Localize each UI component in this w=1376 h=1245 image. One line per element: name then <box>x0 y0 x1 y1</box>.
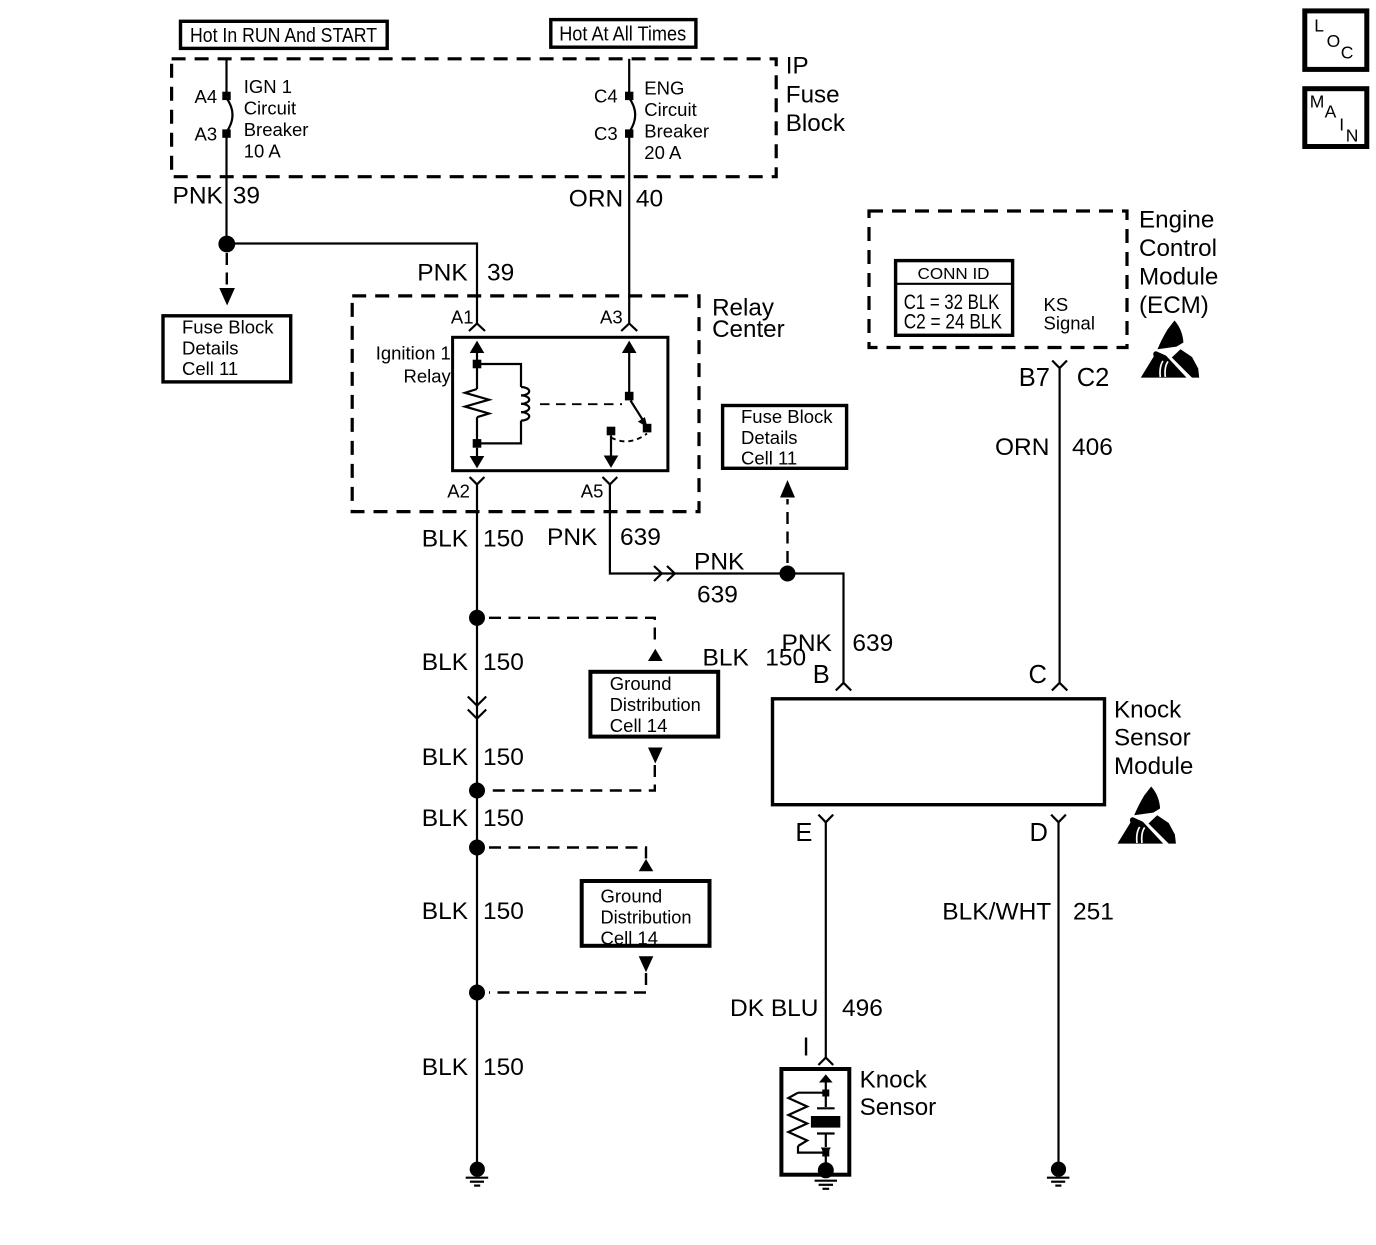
CONN ID table <box>896 261 1013 336</box>
svg-text:Cell 11: Cell 11 <box>182 358 238 379</box>
svg-text:A3: A3 <box>195 124 218 145</box>
wire BLK 150 to ground <box>476 993 478 1164</box>
svg-text:20 A: 20 A <box>644 142 682 163</box>
wire label BLK 150 (6) <box>422 1054 524 1081</box>
svg-text:L: L <box>1314 16 1324 36</box>
arrowhead down (ground distribution 2 bottom) <box>639 956 654 972</box>
svg-text:Ignition 1: Ignition 1 <box>376 343 451 364</box>
svg-text:Sensor: Sensor <box>860 1094 937 1121</box>
wire label ORN 406 <box>995 434 1113 461</box>
label IP Fuse Block <box>786 53 846 138</box>
svg-text:39: 39 <box>233 183 260 210</box>
svg-text:E: E <box>795 819 812 847</box>
svg-text:PNK: PNK <box>173 183 224 210</box>
dashed wire to Ground Distribution 1 <box>489 618 655 646</box>
reference box Fuse Block Details Cell 11 (left) <box>163 316 291 382</box>
dashed wire to Ground Distribution 2 <box>489 848 646 867</box>
svg-text:C: C <box>1341 43 1354 63</box>
svg-text:639: 639 <box>620 524 661 551</box>
relay coil branch left: arrow up, node, resistor <box>470 341 485 389</box>
svg-text:Circuit: Circuit <box>644 99 696 120</box>
wire label PNK 39 (upper) <box>173 183 260 210</box>
svg-text:Cell 11: Cell 11 <box>741 448 797 469</box>
circuit breaker IGN 1 (A4/A3, 10 A) <box>222 92 232 138</box>
reference box Ground Distribution Cell 14 (upper) <box>590 672 718 737</box>
svg-text:Cell 14: Cell 14 <box>610 715 668 736</box>
svg-text:A2: A2 <box>447 481 470 502</box>
svg-text:150: 150 <box>483 744 524 771</box>
connector terminal B (KSM) <box>813 661 852 691</box>
dashed arc between switch contacts <box>611 434 647 442</box>
svg-text:BLK: BLK <box>422 1054 469 1081</box>
label box Hot In RUN And START <box>181 21 388 48</box>
value label ENG Circuit Breaker 20 A <box>644 78 709 164</box>
reference box Ground Distribution Cell 14 (lower) <box>582 881 710 949</box>
label KS Signal <box>1044 294 1095 334</box>
ground (knock sensor) <box>815 1162 837 1189</box>
svg-text:150: 150 <box>765 644 806 671</box>
svg-text:BLK: BLK <box>422 898 469 925</box>
svg-text:(ECM): (ECM) <box>1139 292 1209 319</box>
svg-text:Knock: Knock <box>1114 696 1182 723</box>
svg-text:639: 639 <box>852 630 893 657</box>
svg-text:C: C <box>1029 661 1047 689</box>
svg-text:B7: B7 <box>1019 364 1050 392</box>
svg-text:A5: A5 <box>581 481 604 502</box>
svg-text:IP: IP <box>786 53 809 80</box>
svg-text:406: 406 <box>1072 434 1113 461</box>
dashed wire back to main BLK wire <box>489 765 655 791</box>
wire PNK 39 horizontal to relay A1 <box>227 244 477 325</box>
svg-text:Circuit: Circuit <box>244 98 296 119</box>
relay switch branch right: arrow up and node <box>622 341 637 401</box>
wire label BLK 150 (floating mid) <box>703 644 807 671</box>
svg-text:Knock: Knock <box>860 1067 928 1094</box>
svg-text:Block: Block <box>786 110 846 137</box>
arrowhead up (ground distribution 2 top) <box>639 859 654 871</box>
svg-text:PNK: PNK <box>417 260 468 287</box>
svg-text:A3: A3 <box>600 306 623 327</box>
dashed wire up to Fuse Block Details cell 11 (right) <box>786 499 788 563</box>
junction node BLK 150 splice 3 <box>469 840 485 856</box>
wire DK BLU 496 from E to knock sensor <box>825 822 827 1057</box>
arrowhead down (ground distribution 1 bottom) <box>648 748 663 764</box>
svg-text:ORN: ORN <box>995 434 1049 461</box>
svg-text:ORN: ORN <box>569 186 623 213</box>
svg-text:A1: A1 <box>451 306 474 327</box>
relay switch contact node left (to A5) <box>607 427 616 436</box>
svg-text:BLK: BLK <box>422 805 469 832</box>
svg-text:150: 150 <box>483 649 524 676</box>
knock sensor internal node top <box>822 1090 829 1097</box>
svg-text:DK BLU: DK BLU <box>730 995 819 1022</box>
MAIN reference box <box>1305 89 1367 147</box>
wire BLK 150 main run junction1 to junction2 <box>476 618 478 791</box>
piezo element (capacitor with crystal) <box>811 1097 840 1148</box>
wire label DK BLU 496 <box>730 995 883 1022</box>
svg-text:BLK: BLK <box>422 744 469 771</box>
arrowhead up to fuse block details right <box>780 480 795 498</box>
svg-text:Fuse Block: Fuse Block <box>182 317 274 338</box>
dashed actuation link coil to switch <box>540 403 622 405</box>
svg-text:O: O <box>1327 31 1341 51</box>
svg-text:PNK: PNK <box>547 524 598 551</box>
wire BLK 150 junction2 to junction3 <box>476 791 478 848</box>
svg-text:496: 496 <box>842 995 883 1022</box>
knock sensor internal arrow up <box>819 1074 833 1090</box>
svg-text:Module: Module <box>1139 264 1218 291</box>
value label IGN 1 Circuit Breaker 10 A <box>244 76 309 162</box>
label Engine Control Module (ECM) <box>1139 207 1218 320</box>
label box Hot At All Times <box>551 20 696 48</box>
svg-text:150: 150 <box>483 1054 524 1081</box>
label Knock Sensor <box>860 1067 937 1121</box>
knock sensor module box <box>773 699 1105 805</box>
wire and arrow down to A2 <box>470 448 485 469</box>
ESD symbol (KSM) <box>1118 787 1176 844</box>
svg-text:Hot At All Times: Hot At All Times <box>559 22 686 45</box>
wire label BLK/WHT 251 <box>942 899 1114 926</box>
svg-text:C2: C2 <box>1077 364 1110 392</box>
ground G100 (left) <box>466 1162 489 1186</box>
svg-text:CONN ID: CONN ID <box>918 266 990 283</box>
arrowhead down to fuse block details <box>219 288 235 306</box>
svg-text:Fuse: Fuse <box>786 81 840 108</box>
svg-text:39: 39 <box>487 260 514 287</box>
svg-text:Breaker: Breaker <box>244 119 309 140</box>
svg-text:Details: Details <box>741 427 798 448</box>
circuit breaker ENG (C4/C3, 20 A) <box>625 92 635 138</box>
ECM dashed box <box>869 211 1127 348</box>
svg-text:40: 40 <box>636 186 663 213</box>
wire label PNK 639 (vertical to B) <box>782 630 894 657</box>
wire label ORN 40 <box>569 186 663 213</box>
Relay Center dashed box <box>352 296 699 512</box>
svg-text:IGN 1: IGN 1 <box>244 76 292 97</box>
svg-text:10 A: 10 A <box>244 141 282 162</box>
svg-text:N: N <box>1346 125 1359 145</box>
wire label BLK 150 (4) <box>422 805 524 832</box>
relay switch contact node right <box>643 424 652 433</box>
ground G (right, BLK/WHT 251) <box>1047 1162 1070 1186</box>
wire BLK 150 from A2 down to first junction <box>476 484 478 618</box>
svg-text:C2 = 24 BLK: C2 = 24 BLK <box>904 310 1002 333</box>
connector terminal B7 / C2 <box>1019 361 1110 393</box>
svg-text:Engine: Engine <box>1139 207 1214 234</box>
svg-text:BLK/WHT: BLK/WHT <box>942 899 1051 926</box>
svg-text:BLK: BLK <box>703 644 750 671</box>
wire BLK/WHT 251 from D to ground <box>1057 822 1059 1163</box>
svg-text:639: 639 <box>697 582 738 609</box>
connector terminal D (KSM bottom) <box>1030 815 1066 847</box>
connector terminal A5 <box>581 477 618 502</box>
connector terminal A2 <box>447 477 484 502</box>
svg-text:BLK: BLK <box>422 526 469 553</box>
wire ORN 40 from fuse block top through breaker down to relay A3 <box>628 59 630 324</box>
svg-text:PNK: PNK <box>694 549 745 576</box>
svg-text:150: 150 <box>483 526 524 553</box>
LOC reference box <box>1305 11 1367 70</box>
label Relay Center <box>712 295 785 343</box>
svg-text:Signal: Signal <box>1044 313 1095 334</box>
wire and arrow down to A5 <box>604 435 619 468</box>
svg-text:Relay: Relay <box>403 366 451 387</box>
svg-text:I: I <box>1339 115 1344 135</box>
wire label BLK 150 (below A2) <box>422 526 524 553</box>
connector terminal E (KSM bottom) <box>795 815 833 847</box>
ESD symbol (ECM) <box>1141 321 1199 378</box>
svg-text:A4: A4 <box>195 86 218 107</box>
wire PNK 39 from fuse block top through breaker to junction <box>225 59 227 244</box>
svg-text:Module: Module <box>1114 753 1193 780</box>
svg-text:Hot In RUN And START: Hot In RUN And START <box>190 24 377 47</box>
junction node BLK 150 splice 2 <box>469 783 485 799</box>
svg-text:ENG: ENG <box>644 78 684 99</box>
wire PNK 639 from A5 down then right to B <box>610 484 844 683</box>
svg-text:C3: C3 <box>594 123 618 144</box>
svg-text:C4: C4 <box>594 85 618 106</box>
dashed wire back to main BLK wire lower <box>489 973 646 993</box>
relay switch movable contact arm with arrowhead <box>631 401 648 428</box>
splice chevrons on BLK wire <box>468 697 486 719</box>
connector terminal I <box>818 1058 833 1065</box>
junction node BLK 150 splice 1 <box>469 610 485 626</box>
wire to lower node <box>476 417 478 439</box>
inductor L relay coil <box>481 364 529 443</box>
label Ignition 1 Relay <box>376 343 452 387</box>
svg-text:Center: Center <box>712 316 785 343</box>
wire label PNK 639 (horizontal run) <box>694 549 745 609</box>
junction node PNK 39 splice <box>218 236 235 253</box>
svg-text:Distribution: Distribution <box>601 907 692 928</box>
svg-text:D: D <box>1030 819 1048 847</box>
svg-text:Cell 14: Cell 14 <box>601 928 659 949</box>
svg-text:Sensor: Sensor <box>1114 725 1191 752</box>
svg-text:Ground: Ground <box>601 886 663 907</box>
wire ORN 406 from ECM to knock sensor module C <box>1058 368 1060 683</box>
dashed wire to Fuse Block Details cell 11 (left) <box>226 253 228 289</box>
knock sensor box <box>781 1069 849 1175</box>
svg-text:B: B <box>813 661 830 689</box>
reference box Fuse Block Details Cell 11 (right) <box>723 406 847 469</box>
connector terminal A3 (relay) <box>600 306 637 331</box>
svg-text:251: 251 <box>1073 899 1114 926</box>
svg-text:Distribution: Distribution <box>610 694 701 715</box>
svg-text:Ground: Ground <box>610 673 672 694</box>
connector terminal C (KSM) <box>1029 661 1068 691</box>
knock sensor internal lower arrow and node <box>821 1148 831 1165</box>
connector terminal A1 <box>451 306 485 331</box>
junction node BLK 150 splice 4 <box>469 985 485 1001</box>
svg-text:Breaker: Breaker <box>644 121 709 142</box>
wire label BLK 150 (2) <box>422 649 524 676</box>
junction node PNK 639 splice <box>780 566 796 582</box>
wire label PNK 39 (at relay A1) <box>417 260 514 287</box>
svg-text:150: 150 <box>483 898 524 925</box>
node lower left of relay <box>473 439 482 448</box>
svg-text:A: A <box>1325 102 1337 122</box>
arrowhead up (ground distribution 1 top) <box>648 649 663 661</box>
knock sensor internal resistor <box>788 1093 822 1153</box>
svg-text:Control: Control <box>1139 235 1217 262</box>
svg-text:M: M <box>1310 91 1325 111</box>
wire label BLK 150 (5) <box>422 898 524 925</box>
resistor (relay coil suppression) <box>465 389 489 417</box>
wire label PNK 639 (at A5) <box>547 524 661 551</box>
wire BLK 150 junction3 to junction4 <box>476 848 478 993</box>
svg-text:Fuse Block: Fuse Block <box>741 406 833 427</box>
svg-text:150: 150 <box>483 805 524 832</box>
label Knock Sensor Module <box>1114 696 1193 780</box>
IP Fuse Block dashed box <box>172 59 777 177</box>
wire label BLK 150 (3) <box>422 744 524 771</box>
svg-text:Details: Details <box>182 337 239 358</box>
svg-text:BLK: BLK <box>422 649 469 676</box>
svg-text:I: I <box>803 1034 810 1062</box>
relay U1 Ignition 1 Relay box <box>453 337 668 470</box>
splice chevrons on PNK 639 horizontal wire <box>654 566 675 581</box>
